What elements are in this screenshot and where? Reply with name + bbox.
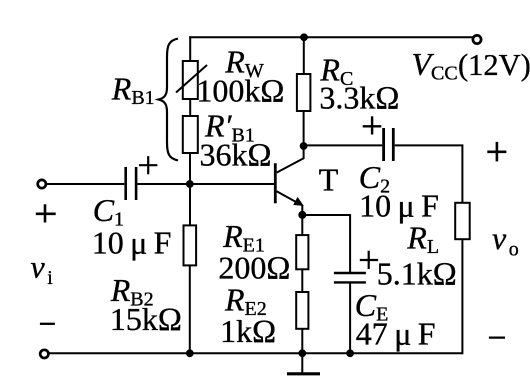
brace for RB1	[159, 39, 178, 161]
capacitor CE	[334, 273, 366, 282]
wire RB1 branch: rail to RW top	[189, 36, 191, 61]
svg-text:VCC(12V): VCC(12V)	[412, 46, 530, 85]
transistor T	[275, 146, 304, 206]
junction node: RB2 / bottom rail	[186, 349, 194, 357]
junction node: top rail / RC	[300, 33, 308, 41]
wire RE1 to RE2	[301, 269, 303, 292]
wire RC to collector node	[303, 111, 305, 146]
wire C1 to transistor base	[138, 183, 276, 185]
wire collector node to C2	[304, 144, 383, 146]
plus sign of C2	[363, 116, 382, 134]
plus sign output polarity	[487, 142, 506, 162]
wire RL to bottom rail	[461, 239, 463, 354]
wire top supply rail	[189, 36, 473, 38]
resistor RB2	[184, 225, 197, 265]
wire bottom rail	[49, 352, 463, 354]
minus sign input polarity	[40, 323, 55, 325]
svg-text:15kΩ: 15kΩ	[110, 301, 182, 338]
junction node: collector	[300, 142, 308, 150]
svg-text:T: T	[319, 162, 339, 198]
terminal input top open circle	[38, 180, 46, 188]
wire RW to R'B1	[189, 99, 191, 116]
junction node: base	[186, 180, 194, 188]
plus sign of CE	[360, 251, 378, 269]
resistor RC	[297, 74, 311, 111]
svg-text:36kΩ: 36kΩ	[200, 137, 272, 174]
svg-text:100kΩ: 100kΩ	[196, 73, 284, 110]
terminal input bottom open circle	[40, 350, 48, 358]
wire emitter to emitter node	[301, 205, 303, 216]
svg-text:3.3kΩ: 3.3kΩ	[319, 79, 399, 116]
resistor RL	[455, 203, 470, 239]
resistor RW (adjustable, slash)	[176, 61, 207, 99]
ground	[287, 353, 320, 374]
svg-text:1kΩ: 1kΩ	[220, 313, 276, 350]
wire input to C1	[46, 183, 124, 185]
resistor R'B1	[183, 116, 198, 153]
resistor RE1	[296, 235, 308, 269]
minus sign output polarity	[489, 336, 505, 338]
wire CE to bottom rail	[349, 282, 351, 353]
wire RE2 to bottom rail	[301, 329, 303, 354]
wire RB2 to bottom rail	[189, 265, 191, 353]
wire C2 to RL branch	[395, 145, 463, 202]
junction node: RE2 / bottom rail	[298, 349, 306, 357]
capacitor C2	[384, 128, 394, 161]
wire RC branch: rail to RC	[303, 37, 305, 74]
plus sign input polarity	[36, 204, 56, 222]
plus sign of C1	[139, 156, 157, 174]
svg-text:47 μ F: 47 μ F	[356, 316, 436, 352]
wire emitter node to CE branch	[302, 215, 350, 273]
junction node: emitter	[298, 211, 306, 219]
resistor RE2	[296, 292, 308, 329]
svg-text:5.1kΩ: 5.1kΩ	[377, 256, 457, 293]
terminal VCC open circle	[473, 35, 481, 43]
wire emitter node to RE1	[301, 215, 303, 235]
svg-text:10 μ F: 10 μ F	[92, 225, 172, 261]
wire R'B1 to base node	[189, 153, 191, 185]
svg-text:10 μ F: 10 μ F	[359, 188, 439, 224]
wire base node to RB2	[189, 184, 191, 225]
junction node: CE / bottom rail	[346, 349, 354, 357]
capacitor C1	[126, 167, 136, 200]
